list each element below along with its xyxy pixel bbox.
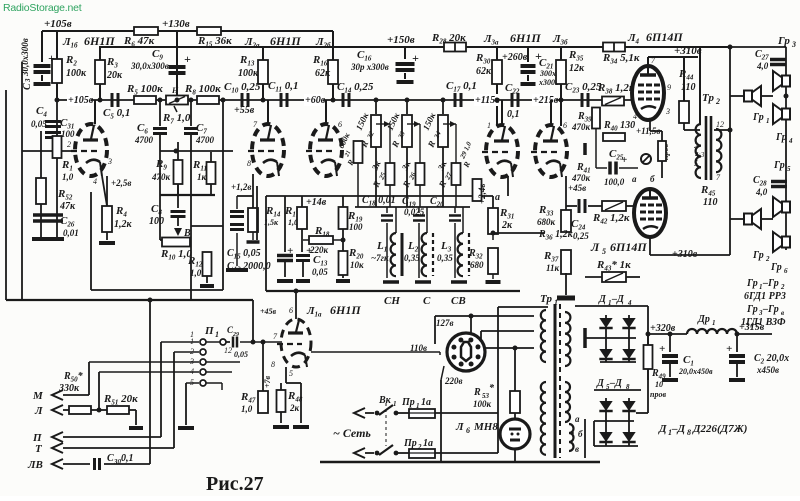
svg-text:2: 2 bbox=[417, 443, 422, 451]
svg-text:2: 2 bbox=[715, 97, 720, 106]
svg-text:6: 6 bbox=[563, 121, 567, 130]
svg-text:Д226(Д7Ж): Д226(Д7Ж) bbox=[692, 423, 747, 435]
svg-text:R8 100к: R8 100к bbox=[184, 83, 221, 97]
svg-text:СН: СН bbox=[384, 295, 400, 307]
svg-text:3: 3 bbox=[107, 157, 112, 166]
svg-text:1,0: 1,0 bbox=[190, 268, 202, 278]
svg-text:11к: 11к bbox=[546, 263, 560, 273]
svg-text:R43* 1к: R43* 1к bbox=[596, 259, 631, 273]
svg-text:4:3: 4:3 bbox=[695, 151, 705, 159]
svg-text:12к: 12к bbox=[569, 63, 585, 74]
svg-text:0,05: 0,05 bbox=[234, 350, 248, 359]
svg-text:5: 5 bbox=[694, 159, 698, 168]
svg-text:4,0: 4,0 bbox=[755, 187, 768, 197]
svg-text:Вк: Вк bbox=[378, 395, 392, 406]
svg-text:Пр: Пр bbox=[403, 438, 417, 449]
svg-text:5: 5 bbox=[787, 165, 791, 173]
svg-text:12: 12 bbox=[716, 120, 724, 129]
svg-text:~7гк: ~7гк bbox=[371, 253, 389, 263]
svg-text:R6 47к: R6 47к bbox=[123, 35, 155, 49]
svg-text:а: а bbox=[632, 174, 637, 184]
svg-text:9: 9 bbox=[667, 83, 671, 92]
svg-text:2к: 2к bbox=[289, 403, 300, 413]
svg-text:4,0: 4,0 bbox=[756, 61, 769, 71]
svg-text:8: 8 bbox=[271, 360, 275, 369]
svg-text:Гр: Гр bbox=[777, 35, 790, 47]
svg-text:Рис.27: Рис.27 bbox=[206, 473, 264, 495]
svg-text:Пр: Пр bbox=[401, 397, 415, 408]
svg-text:100к: 100к bbox=[66, 68, 87, 79]
svg-text:+7в: +7в bbox=[263, 375, 272, 388]
svg-text:+60в: +60в bbox=[305, 95, 326, 106]
svg-text:127в: 127в bbox=[436, 318, 454, 328]
svg-text:1: 1 bbox=[416, 402, 420, 410]
svg-text:R38 1,2к: R38 1,2к bbox=[597, 82, 635, 96]
svg-text:6П14П: 6П14П bbox=[646, 30, 683, 44]
svg-text:R10 1,0: R10 1,0 bbox=[160, 248, 192, 262]
svg-text:12: 12 bbox=[224, 346, 232, 355]
svg-text:6: 6 bbox=[289, 306, 293, 315]
svg-text:1,2к: 1,2к bbox=[114, 219, 133, 230]
svg-text:100: 100 bbox=[349, 222, 363, 232]
svg-text:6Н1П: 6Н1П bbox=[510, 31, 541, 45]
svg-text:2: 2 bbox=[765, 255, 770, 263]
svg-text:+55в: +55в bbox=[234, 105, 255, 116]
svg-text:0,05: 0,05 bbox=[31, 119, 47, 129]
svg-text:2: 2 bbox=[190, 347, 194, 356]
svg-text:10: 10 bbox=[655, 380, 663, 389]
svg-text:100к: 100к bbox=[473, 399, 492, 409]
svg-text:R34 5,1к: R34 5,1к bbox=[602, 52, 640, 66]
svg-text:Л: Л bbox=[455, 421, 464, 433]
svg-text:29: 29 bbox=[232, 332, 239, 338]
svg-text:1: 1 bbox=[766, 117, 770, 125]
svg-text:0,01: 0,01 bbox=[63, 228, 79, 238]
svg-text:R15 36к: R15 36к bbox=[197, 35, 232, 49]
svg-text:62к: 62к bbox=[315, 68, 331, 79]
svg-text:R51 20к: R51 20к bbox=[103, 393, 138, 407]
svg-text:C5 0,1: C5 0,1 bbox=[103, 107, 130, 121]
svg-text:RadioStorage.net: RadioStorage.net bbox=[3, 2, 82, 14]
svg-text:+14в: +14в bbox=[306, 197, 327, 208]
svg-text:+105в: +105в bbox=[68, 95, 94, 106]
svg-text:R42 1,2к: R42 1,2к bbox=[592, 212, 630, 226]
svg-text:0,1: 0,1 bbox=[507, 109, 520, 120]
svg-text:470к: 470к bbox=[151, 172, 171, 182]
svg-text:30р х300в: 30р х300в bbox=[350, 62, 389, 72]
svg-text:1: 1 bbox=[712, 319, 716, 327]
svg-text:0,35: 0,35 bbox=[437, 253, 453, 263]
svg-text:2: 2 bbox=[67, 140, 71, 149]
svg-text:220в: 220в bbox=[444, 376, 463, 386]
svg-text:R36 1,2к: R36 1,2к bbox=[538, 229, 574, 242]
svg-text:100: 100 bbox=[61, 129, 75, 139]
svg-text:+310в: +310в bbox=[674, 45, 702, 57]
svg-text:6: 6 bbox=[784, 267, 788, 275]
svg-text:100,0: 100,0 bbox=[604, 177, 625, 187]
svg-text:6ГД1 РР3: 6ГД1 РР3 bbox=[744, 291, 786, 302]
svg-text:–Гр: –Гр bbox=[762, 304, 779, 315]
svg-text:62к: 62к bbox=[476, 66, 492, 77]
svg-text:C: C bbox=[22, 83, 33, 90]
svg-text:пров: пров bbox=[650, 390, 666, 399]
svg-text:+: + bbox=[659, 343, 665, 355]
svg-text:1к: 1к bbox=[197, 172, 207, 182]
svg-text:б: б bbox=[650, 174, 655, 184]
svg-text:0,1: 0,1 bbox=[121, 453, 134, 464]
svg-text:+2,5в: +2,5в bbox=[111, 178, 131, 188]
svg-text:1: 1 bbox=[93, 119, 97, 128]
svg-text:Н: Н bbox=[171, 86, 179, 95]
svg-text:8: 8 bbox=[247, 159, 251, 168]
svg-text:4700: 4700 bbox=[134, 135, 154, 145]
svg-text:б: б bbox=[578, 429, 583, 439]
svg-text:1: 1 bbox=[487, 121, 491, 130]
svg-text:1: 1 bbox=[554, 298, 558, 307]
svg-text:1: 1 bbox=[393, 400, 397, 408]
svg-text:C23 0,25: C23 0,25 bbox=[565, 81, 602, 95]
svg-text:220к: 220к bbox=[309, 245, 329, 255]
svg-text:–Д: –Д bbox=[611, 294, 625, 305]
svg-text:М: М bbox=[32, 390, 44, 402]
svg-text:Гр: Гр bbox=[775, 132, 787, 143]
svg-text:6Н1П: 6Н1П bbox=[84, 34, 115, 48]
svg-text:6П14П: 6П14П bbox=[610, 240, 647, 254]
svg-text:20,0х450в: 20,0х450в bbox=[678, 367, 713, 376]
svg-text:+2,4в: +2,4в bbox=[477, 184, 487, 204]
svg-text:R5 100к: R5 100к bbox=[126, 83, 163, 97]
svg-text:+150в: +150в bbox=[387, 34, 415, 46]
svg-text:C: C bbox=[107, 453, 114, 464]
svg-text:П: П bbox=[204, 325, 214, 337]
svg-text:1а: 1а bbox=[423, 438, 433, 449]
svg-text:C15 0,05: C15 0,05 bbox=[227, 248, 261, 261]
svg-text:1,0: 1,0 bbox=[62, 172, 74, 182]
svg-text:Л: Л bbox=[34, 405, 43, 417]
svg-text:+45в: +45в bbox=[568, 183, 586, 193]
svg-text:110: 110 bbox=[681, 82, 695, 93]
svg-text:680: 680 bbox=[470, 260, 484, 270]
svg-text:4: 4 bbox=[93, 177, 97, 186]
svg-text:0,05: 0,05 bbox=[312, 267, 328, 277]
svg-text:1: 1 bbox=[190, 337, 194, 346]
svg-text:3: 3 bbox=[24, 78, 32, 83]
svg-text:330к: 330к bbox=[58, 383, 80, 394]
svg-text:Гр: Гр bbox=[752, 112, 764, 123]
svg-text:Д: Д bbox=[598, 294, 607, 305]
svg-text:+260в: +260в bbox=[502, 52, 528, 63]
svg-text:30,0х300в: 30,0х300в bbox=[130, 61, 169, 71]
svg-text:+105в: +105в bbox=[44, 18, 72, 30]
svg-text:+215в: +215в bbox=[533, 95, 559, 106]
svg-text:+130в: +130в bbox=[162, 18, 190, 30]
svg-text:C14 0,25: C14 0,25 bbox=[337, 81, 374, 95]
svg-text:Д: Д bbox=[596, 378, 605, 389]
svg-text:Гр: Гр bbox=[770, 262, 782, 273]
svg-text:в: в bbox=[575, 444, 579, 454]
svg-text:470к: 470к bbox=[571, 173, 591, 183]
svg-text:6Н1П: 6Н1П bbox=[270, 34, 301, 48]
svg-text:C2 20,0х: C2 20,0х bbox=[754, 353, 789, 366]
svg-text:5: 5 bbox=[602, 247, 606, 256]
svg-text:2: 2 bbox=[780, 283, 785, 291]
svg-text:300х: 300х bbox=[539, 69, 556, 78]
svg-text:47к: 47к bbox=[59, 201, 76, 212]
svg-text:5: 5 bbox=[190, 378, 194, 387]
svg-text:+: + bbox=[412, 51, 419, 65]
svg-text:1,5к: 1,5к bbox=[264, 218, 279, 227]
svg-text:a: a bbox=[495, 192, 500, 203]
svg-text:3: 3 bbox=[791, 40, 796, 49]
svg-text:х450в: х450в bbox=[756, 365, 779, 375]
svg-text:в: в bbox=[781, 309, 784, 317]
svg-text:–Гр: –Гр bbox=[762, 278, 779, 289]
svg-text:~ Сеть: ~ Сеть bbox=[333, 426, 371, 440]
svg-text:Др: Др bbox=[697, 314, 710, 325]
svg-text:+: + bbox=[184, 52, 191, 66]
svg-text:2: 2 bbox=[694, 141, 698, 150]
svg-text:+: + bbox=[287, 245, 293, 257]
svg-text:Д: Д bbox=[658, 423, 667, 435]
svg-text:680к: 680к bbox=[537, 217, 556, 227]
svg-text:R: R bbox=[473, 387, 481, 398]
svg-text:Гр: Гр bbox=[746, 304, 758, 315]
svg-text:10к: 10к bbox=[350, 260, 364, 270]
svg-text:5: 5 bbox=[289, 369, 293, 378]
svg-text:110: 110 bbox=[703, 197, 717, 208]
svg-text:100к: 100к bbox=[238, 68, 259, 79]
svg-text:Тр: Тр bbox=[702, 92, 714, 104]
svg-text:470к: 470к bbox=[571, 122, 591, 132]
svg-text:Тр: Тр bbox=[540, 293, 552, 305]
svg-text:1: 1 bbox=[759, 283, 763, 291]
svg-text:100: 100 bbox=[149, 216, 164, 227]
svg-text:+: + bbox=[726, 343, 732, 355]
svg-text:R28 20к: R28 20к bbox=[431, 32, 466, 46]
svg-text:6Н1П: 6Н1П bbox=[330, 303, 361, 317]
svg-text:6: 6 bbox=[338, 120, 342, 129]
svg-text:0,35: 0,35 bbox=[404, 253, 420, 263]
svg-text:20к: 20к bbox=[106, 70, 123, 81]
svg-text:6: 6 bbox=[466, 426, 470, 435]
svg-text:3: 3 bbox=[665, 107, 670, 116]
svg-text:1,0: 1,0 bbox=[241, 404, 253, 414]
svg-text:+1,2в: +1,2в bbox=[231, 182, 251, 192]
svg-text:а: а bbox=[575, 414, 580, 424]
svg-text:C12 2000,0: C12 2000,0 bbox=[227, 261, 271, 274]
svg-text:+45в: +45в bbox=[260, 307, 277, 316]
svg-text:1: 1 bbox=[215, 330, 219, 339]
svg-text:–Д: –Д bbox=[671, 423, 686, 435]
svg-text:1а: 1а bbox=[421, 397, 431, 408]
svg-text:4: 4 bbox=[788, 137, 793, 145]
svg-text:C11 0,1: C11 0,1 bbox=[268, 80, 298, 94]
svg-text:R40 130: R40 130 bbox=[603, 120, 635, 133]
svg-text:8: 8 bbox=[687, 428, 691, 437]
svg-text:ЛВ: ЛВ bbox=[27, 459, 43, 471]
svg-text:0,25: 0,25 bbox=[573, 231, 589, 241]
svg-text:Гр: Гр bbox=[752, 250, 764, 261]
svg-text:+315в: +315в bbox=[739, 322, 765, 333]
svg-text:3: 3 bbox=[189, 357, 194, 366]
svg-text:Л: Л bbox=[590, 240, 600, 254]
svg-text:C10 0,25: C10 0,25 bbox=[224, 81, 261, 95]
svg-text:4: 4 bbox=[190, 367, 194, 376]
svg-text:R7 1,0: R7 1,0 bbox=[162, 112, 191, 126]
svg-text:С: С bbox=[423, 295, 431, 307]
svg-text:СВ: СВ bbox=[451, 295, 466, 307]
svg-text:Гр: Гр bbox=[773, 160, 785, 171]
svg-text:2к: 2к bbox=[501, 220, 513, 231]
svg-text:–Д: –Д bbox=[609, 378, 623, 389]
svg-text:C17 0,1: C17 0,1 bbox=[446, 80, 477, 94]
svg-text:МН8: МН8 bbox=[473, 421, 498, 433]
svg-text:4700: 4700 bbox=[195, 135, 215, 145]
svg-text:Гр: Гр bbox=[746, 278, 758, 289]
